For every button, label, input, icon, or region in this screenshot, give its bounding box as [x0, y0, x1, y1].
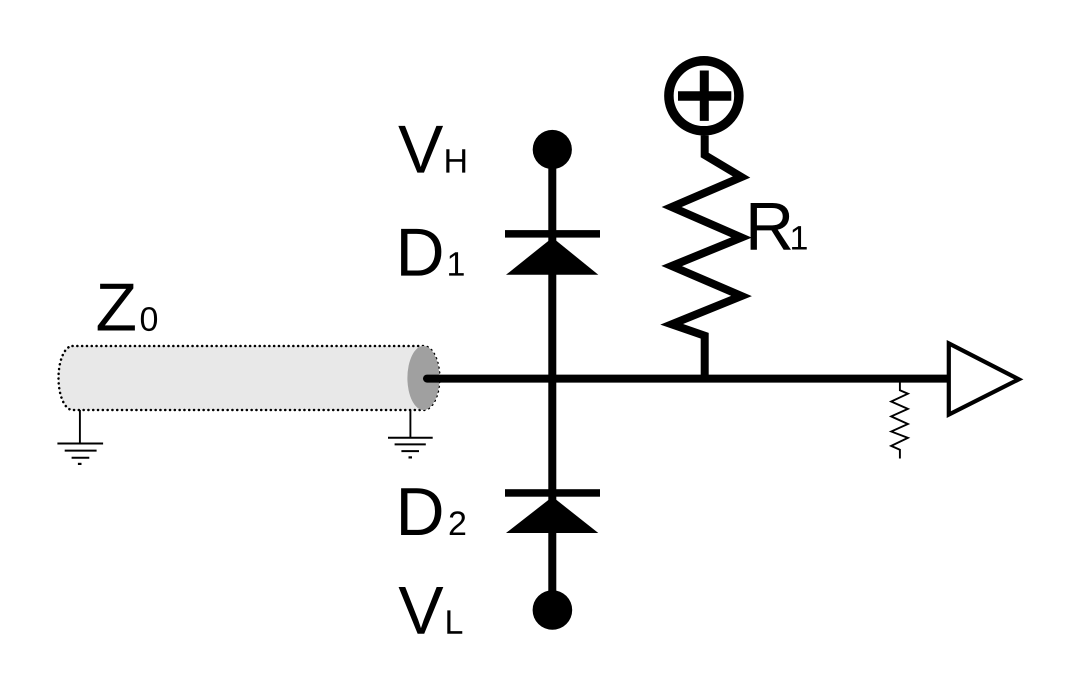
diode D2 — [505, 489, 600, 533]
ground left — [57, 410, 103, 464]
node VH terminal — [533, 130, 572, 169]
node VL terminal — [533, 590, 573, 630]
svg-text:H: H — [443, 143, 468, 181]
buffer amplifier — [949, 343, 1019, 414]
svg-text:1: 1 — [789, 220, 808, 258]
diode D1 — [505, 230, 600, 275]
svg-text:D: D — [395, 215, 444, 291]
transmission line end cap — [407, 346, 439, 410]
svg-text:1: 1 — [446, 246, 465, 284]
svg-text:V: V — [398, 573, 444, 649]
svg-text:V: V — [398, 112, 444, 188]
svg-text:2: 2 — [448, 505, 467, 543]
svg-text:L: L — [444, 604, 463, 642]
svg-text:0: 0 — [139, 301, 158, 339]
svg-text:Z: Z — [95, 270, 137, 346]
svg-text:D: D — [395, 474, 444, 550]
wire diode branch vertical — [548, 150, 556, 611]
voltage source V+ — [669, 61, 739, 131]
resistor termination small — [891, 383, 908, 459]
transmission line Z0 body — [59, 346, 440, 410]
svg-text:R: R — [745, 189, 794, 265]
wire main horizontal — [427, 375, 951, 383]
resistor R1 — [672, 136, 742, 379]
ground right — [388, 410, 433, 457]
